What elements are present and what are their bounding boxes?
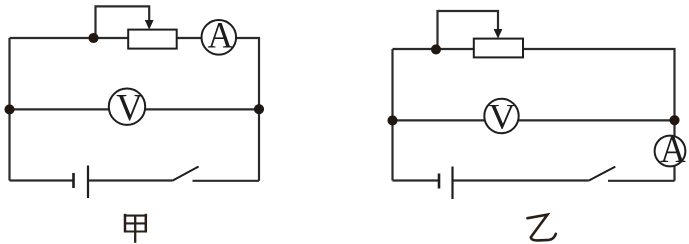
- wire: right circuit bottom wire left of battery: [393, 179, 440, 181]
- rheostat R2 slider arrowhead: [494, 29, 503, 39]
- node: left circuit middle-left junction: [4, 104, 14, 114]
- voltmeter V1 (left circuit): [109, 89, 145, 125]
- wire: right circuit bottom wire battery to switch: [453, 179, 589, 181]
- wire: right circuit top wire from corner to rheostat: [393, 48, 474, 50]
- wire: left circuit bottom wire right of switch: [193, 180, 260, 182]
- wire: right circuit bottom wire right of switch: [608, 180, 675, 182]
- battery B1 long plate (left circuit): [87, 166, 89, 199]
- wire: left circuit left vertical: [8, 38, 10, 181]
- wire: left circuit top wire rheostat to ammeter: [178, 37, 203, 39]
- label 乙 (right circuit caption, drawn strokes): [528, 215, 556, 241]
- battery B2 long plate (right circuit): [451, 167, 453, 200]
- ammeter A1 (left circuit): [202, 20, 237, 55]
- wire: right circuit ammeter to bottom-right corner: [673, 167, 675, 181]
- wire: left circuit middle wire (voltmeter branch): [10, 108, 260, 110]
- node: right circuit top junction: [431, 44, 441, 54]
- rheostat R1 slider wire: [96, 6, 150, 38]
- node: right circuit middle-right junction: [669, 115, 679, 125]
- wire: left circuit bottom wire battery to switch: [88, 179, 172, 181]
- rheostat R1 body: [128, 30, 177, 49]
- node: left circuit top junction: [88, 33, 98, 43]
- voltmeter V2 (right circuit): [484, 99, 518, 133]
- ammeter A2 (right circuit): [655, 136, 686, 167]
- switch S2 blade (right circuit): [589, 167, 616, 181]
- rheostat R2 slider wire: [438, 11, 499, 49]
- wire: right circuit left vertical: [391, 49, 393, 181]
- label 甲 (left circuit caption, drawn strokes): [124, 214, 147, 243]
- node: right circuit middle-left junction: [387, 115, 397, 125]
- rheostat R2 body: [474, 39, 523, 58]
- wire: left circuit bottom wire left of battery: [10, 179, 74, 181]
- wire: right circuit middle wire (voltmeter branch): [393, 119, 675, 121]
- rheostat R1 slider arrowhead: [145, 20, 154, 30]
- wire: right circuit top wire rheostat to top-right corner, right vertical down to ammeter: [524, 49, 675, 136]
- wire: left circuit ammeter to top-right corner and right vertical: [236, 38, 260, 181]
- battery B1 short plate (left circuit): [72, 173, 75, 188]
- battery B2 short plate (right circuit): [438, 174, 441, 189]
- node: left circuit middle-right junction: [254, 104, 264, 114]
- wire: left circuit top wire from corner to rheostat: [10, 37, 129, 39]
- switch S1 blade (left circuit): [172, 167, 198, 181]
